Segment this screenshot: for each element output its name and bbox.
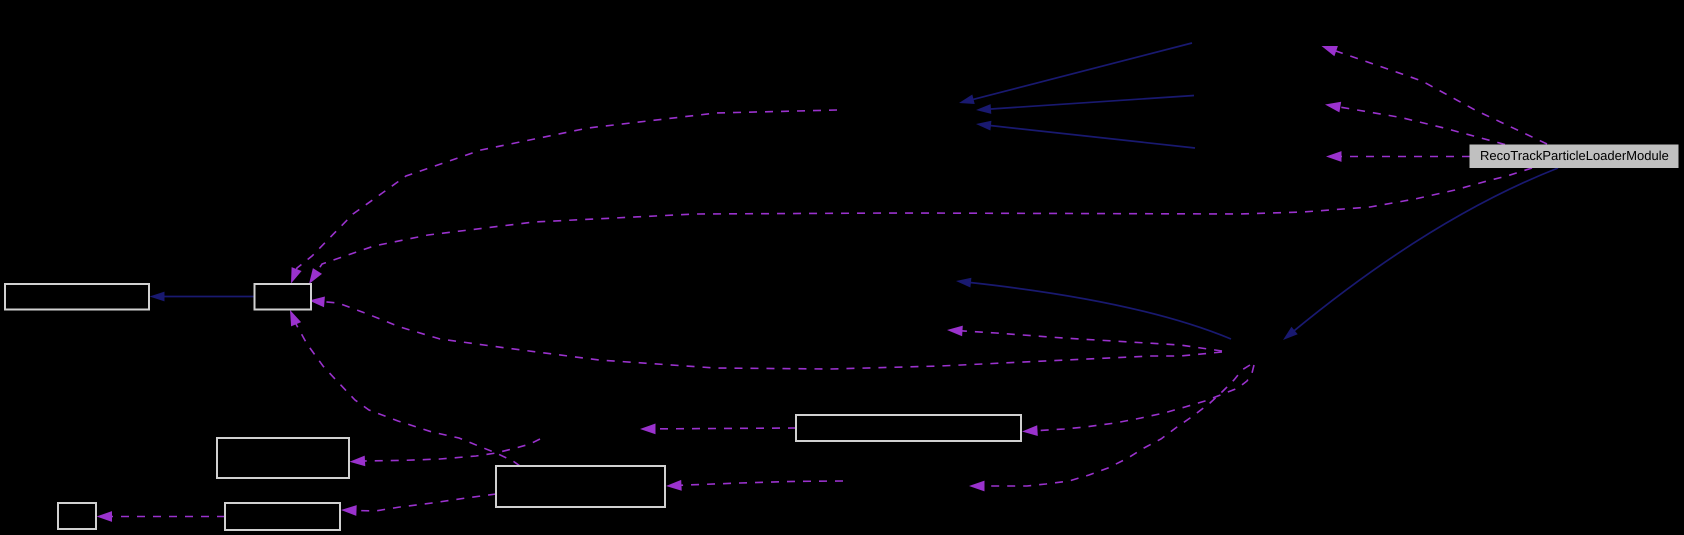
dashed edge RecoTrackParticleLoaderModule to K3: [1326, 151, 1470, 162]
blue edge Module hub to PathElement (inherit): [956, 278, 1231, 339]
node4 box: [225, 503, 340, 530]
node5 box: [217, 438, 349, 478]
blue edge node K3 to base (inherit): [976, 121, 1195, 148]
node6 box: [496, 466, 665, 507]
dashed edge hub to node2: [309, 297, 1222, 370]
dashed edge hub to node I: [969, 365, 1250, 491]
blue edge RecoTrackParticleLoaderModule to Module hub (inherit): [1283, 168, 1558, 340]
dashed edge node4 to node3: [97, 511, 226, 522]
dashed edge hub to node H: [947, 326, 1222, 351]
dashed edge RecoTrackParticleLoaderModule to K1: [1322, 46, 1548, 144]
dashed edge node6 to node2: [290, 310, 520, 466]
node3 box: [58, 503, 96, 529]
dashed edge RecoTrackParticleLoaderModule to K2: [1325, 102, 1505, 145]
blue edge node2 to node1 (inherit): [150, 292, 255, 302]
dashed edge hub to node7: [1022, 365, 1254, 436]
blue edge node K2 to base (inherit): [976, 96, 1194, 114]
dashed edge base to node2: [291, 110, 837, 284]
dashed edge node7 to node J: [640, 424, 796, 435]
node1 box: [5, 284, 149, 310]
dashed edge node J to node5: [350, 439, 541, 466]
dashed edge node6 to node4: [341, 494, 496, 516]
dashed edge node I to node6: [666, 480, 843, 491]
blue edge node K1 to base (inherit): [959, 43, 1192, 104]
node7 box: [796, 415, 1021, 441]
node RecoTrackParticleLoaderModule (selected, gray): [1470, 145, 1678, 168]
dashed edge RecoTrackParticleLoaderModule to node2: [309, 168, 1532, 284]
node2 box: [255, 284, 312, 310]
